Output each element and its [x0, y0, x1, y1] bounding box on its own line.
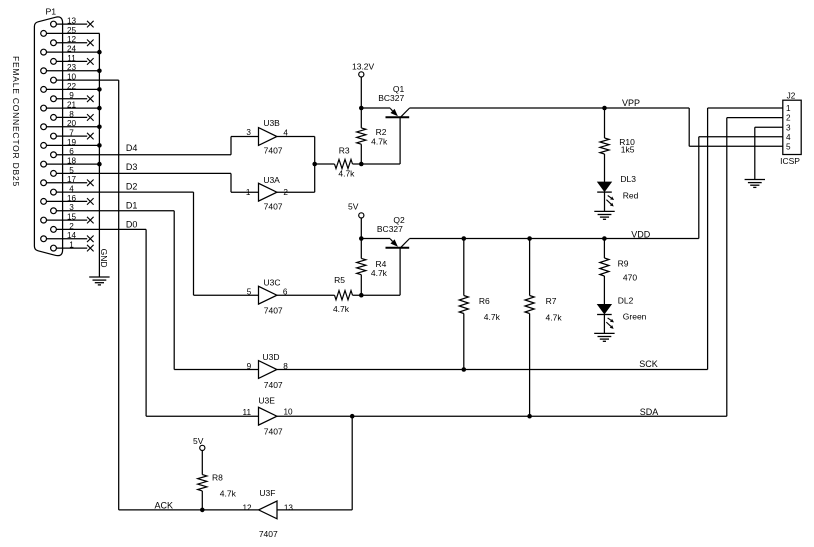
svg-text:9: 9	[69, 91, 74, 100]
P1 pin 22	[41, 82, 102, 93]
wire SCK	[277, 369, 708, 371]
node U3 outputs junction	[312, 162, 317, 167]
svg-text:D3: D3	[126, 162, 138, 172]
wire SDA	[277, 415, 727, 417]
P1 pin 12	[51, 35, 94, 46]
GND bus wire	[98, 32, 101, 34]
svg-text:1: 1	[786, 104, 791, 113]
svg-text:23: 23	[67, 63, 77, 72]
svg-text:12: 12	[242, 504, 252, 513]
P1 pin 15	[41, 213, 94, 224]
node VDD/R7	[527, 236, 532, 241]
op-amp buffer U3A 7407	[246, 175, 288, 212]
wire D3	[230, 173, 232, 192]
svg-text:4.7k: 4.7k	[371, 268, 388, 278]
P1 pin 24	[41, 45, 102, 55]
P1 pin 6	[51, 147, 231, 158]
svg-text:2: 2	[69, 222, 74, 231]
svg-text:U3F: U3F	[259, 488, 275, 498]
svg-text:SCK: SCK	[639, 359, 658, 369]
svg-text:BC327: BC327	[378, 93, 404, 103]
P1 pin 9	[51, 91, 94, 102]
P1 pin 20	[41, 119, 102, 130]
svg-text:U3D: U3D	[262, 352, 279, 362]
svg-text:3: 3	[786, 123, 791, 132]
svg-text:D4: D4	[126, 143, 138, 153]
op-amp buffer U3C 7407	[247, 278, 288, 316]
wire VPP	[410, 107, 690, 109]
connector J2 ICSP	[780, 92, 801, 166]
svg-text:DL3: DL3	[620, 174, 636, 184]
op-amp buffer U3E 7407	[243, 395, 293, 436]
connector P1 DB25 body	[34, 6, 62, 255]
P1 pin 3	[51, 203, 175, 214]
node VDD/R6	[462, 236, 467, 241]
resistor R7 4.7k	[525, 239, 562, 417]
svg-text:25: 25	[67, 26, 77, 35]
resistor R6 4.7k	[459, 239, 500, 370]
svg-text:R5: R5	[334, 275, 345, 285]
LED DL2 Green	[597, 296, 647, 334]
P1 pin 5	[51, 166, 231, 177]
op-amp buffer U3D 7407	[247, 352, 289, 390]
svg-text:24: 24	[67, 45, 77, 54]
wire U3F input from SDA	[351, 416, 353, 510]
svg-text:BC327: BC327	[377, 224, 403, 234]
svg-text:1: 1	[246, 188, 251, 197]
wire ACK	[118, 80, 120, 510]
wire D4	[230, 137, 232, 155]
svg-text:R3: R3	[339, 146, 350, 156]
power terminal 5V (R8)	[193, 436, 205, 475]
svg-text:4: 4	[786, 133, 791, 142]
wire U3B/U3A outputs join	[277, 136, 315, 138]
svg-text:R7: R7	[546, 296, 557, 306]
svg-text:16: 16	[67, 194, 77, 203]
svg-text:7407: 7407	[259, 529, 278, 539]
svg-text:10: 10	[67, 73, 77, 82]
svg-text:15: 15	[67, 213, 77, 222]
wire J2 pin3 to ground	[755, 126, 783, 128]
svg-text:13: 13	[67, 17, 77, 26]
svg-text:20: 20	[67, 119, 77, 128]
resistor R10 1k5	[600, 108, 635, 182]
svg-text:13.2V: 13.2V	[352, 61, 375, 71]
P1 pin 10	[51, 73, 119, 84]
svg-text:4.7k: 4.7k	[484, 312, 501, 322]
svg-text:4.7k: 4.7k	[371, 137, 388, 147]
svg-text:U3C: U3C	[263, 278, 280, 288]
svg-text:22: 22	[67, 82, 77, 91]
P1 pin 1	[51, 241, 94, 252]
svg-text:4.7k: 4.7k	[333, 304, 350, 314]
svg-text:7: 7	[69, 129, 74, 138]
P1 pin 13	[51, 17, 94, 28]
power terminal 13.2V	[352, 61, 375, 108]
node SDA/U3F junction	[350, 414, 355, 419]
svg-text:D0: D0	[126, 220, 138, 230]
wire D2	[193, 192, 195, 295]
svg-text:7407: 7407	[264, 306, 283, 316]
svg-text:ACK: ACK	[154, 500, 173, 510]
svg-text:12: 12	[67, 35, 77, 44]
wire VDD	[410, 238, 699, 240]
op-amp buffer U3B 7407	[246, 118, 288, 155]
P1 pin 25	[41, 26, 100, 37]
node R7/SDA	[527, 414, 532, 419]
svg-text:10: 10	[283, 408, 293, 417]
svg-text:D2: D2	[126, 182, 138, 192]
svg-text:4.7k: 4.7k	[220, 489, 237, 499]
svg-text:R9: R9	[618, 259, 629, 269]
svg-text:Green: Green	[623, 311, 647, 321]
wire D0	[145, 229, 147, 416]
svg-text:3: 3	[69, 203, 74, 212]
svg-text:U3B: U3B	[263, 118, 280, 128]
transistor Q1 BC327 PNP	[361, 84, 409, 164]
svg-text:5V: 5V	[193, 436, 204, 446]
svg-text:SDA: SDA	[640, 407, 659, 417]
P1 pin 19	[41, 138, 102, 149]
svg-text:P1: P1	[45, 6, 56, 16]
svg-text:11: 11	[243, 408, 252, 417]
resistor R9 470	[600, 239, 638, 305]
P1 pin 23	[41, 63, 102, 74]
P1 pin 16	[41, 194, 94, 205]
svg-text:J2: J2	[787, 92, 796, 101]
resistor R4 4.7k	[357, 239, 388, 296]
wire D1	[173, 211, 175, 370]
svg-text:11: 11	[67, 54, 76, 63]
svg-text:Red: Red	[623, 191, 639, 201]
svg-text:DL2: DL2	[618, 296, 634, 306]
svg-text:7407: 7407	[264, 146, 283, 156]
svg-text:5V: 5V	[348, 202, 359, 212]
svg-text:R6: R6	[479, 296, 490, 306]
svg-text:13: 13	[284, 503, 294, 512]
ground (DL3)	[594, 210, 614, 212]
node 5V rail junction	[359, 236, 364, 241]
svg-text:U3A: U3A	[263, 175, 280, 185]
svg-text:7407: 7407	[264, 202, 283, 212]
svg-text:19: 19	[67, 138, 77, 147]
svg-text:VPP: VPP	[622, 98, 640, 108]
P1 pin 21	[41, 101, 102, 112]
resistor R3 4.7k	[315, 146, 400, 179]
node R3/R2 junction	[359, 162, 364, 167]
P1 pin 14	[41, 231, 94, 242]
node VDD/R9	[602, 236, 607, 241]
svg-text:17: 17	[67, 175, 77, 184]
svg-text:4: 4	[69, 185, 74, 194]
ground (J2 pin3)	[745, 179, 765, 181]
svg-text:4.7k: 4.7k	[338, 169, 355, 179]
op-amp buffer U3F 7407 (mirrored)	[242, 488, 293, 539]
svg-text:7407: 7407	[264, 427, 283, 437]
node R6/SCK	[462, 367, 467, 372]
svg-text:6: 6	[69, 147, 74, 156]
power terminal 5V (Q2)	[348, 202, 364, 239]
svg-text:14: 14	[67, 231, 77, 240]
node R4/R5 junction	[359, 293, 364, 298]
transistor Q2 BC327 PNP	[361, 215, 409, 295]
svg-text:1: 1	[69, 241, 74, 250]
LED DL3 Red	[597, 174, 638, 211]
svg-text:9: 9	[247, 362, 252, 371]
P1 pin 17	[41, 175, 94, 186]
svg-text:4.7k: 4.7k	[546, 312, 563, 322]
svg-text:D1: D1	[126, 201, 138, 211]
P1 pin 4	[51, 185, 194, 196]
svg-text:1k5: 1k5	[621, 144, 635, 154]
P1 pin 7	[51, 129, 94, 140]
svg-text:GND: GND	[99, 249, 109, 268]
P1 pin 8	[51, 110, 94, 121]
svg-text:5: 5	[786, 142, 791, 151]
svg-text:VDD: VDD	[631, 229, 651, 239]
ground (DB25 GND)	[89, 276, 109, 278]
resistor R8 4.7k	[198, 472, 237, 510]
svg-text:3: 3	[246, 128, 251, 137]
resistor R5 4.7k	[277, 275, 400, 314]
svg-text:21: 21	[67, 101, 77, 110]
node VPP/R10 junction	[602, 106, 607, 111]
resistor R2 4.7k	[357, 108, 388, 164]
ground (DL2)	[594, 332, 614, 334]
svg-text:ICSP: ICSP	[780, 156, 800, 166]
svg-text:470: 470	[623, 272, 637, 282]
node 13.2V rail junction	[359, 106, 364, 111]
svg-text:R8: R8	[212, 472, 223, 482]
svg-text:FEMALE CONNECTOR DB25: FEMALE CONNECTOR DB25	[11, 56, 21, 187]
svg-text:5: 5	[247, 287, 252, 296]
svg-text:5: 5	[69, 166, 74, 175]
node R8/ACK junction	[200, 508, 205, 513]
svg-text:18: 18	[67, 157, 77, 166]
svg-text:7407: 7407	[264, 380, 283, 390]
svg-text:U3E: U3E	[258, 395, 275, 405]
P1 pin 11	[51, 54, 94, 65]
P1 pin 18	[41, 157, 102, 168]
svg-text:2: 2	[786, 114, 791, 123]
P1 pin 2	[51, 222, 147, 233]
svg-text:8: 8	[69, 110, 74, 119]
